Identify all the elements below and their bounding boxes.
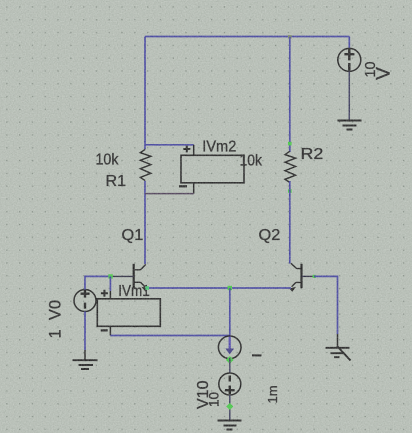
node Q2 base: [313, 275, 316, 278]
ammeter IVm1: [97, 299, 160, 327]
current source Is1: [218, 336, 241, 359]
node top junction: [288, 35, 292, 39]
transistor Q1: [134, 264, 148, 291]
wire Q1 base black part: [111, 275, 134, 277]
wire IVm2 minus stub: [193, 183, 195, 194]
wire tail down to current source: [229, 288, 231, 336]
node R2 bottom: [288, 189, 292, 193]
plus sign IVm2: [183, 146, 190, 153]
wire V0 top to base rail: [85, 276, 111, 289]
voltage source V0: [74, 290, 96, 312]
transistor Q2: [290, 263, 301, 291]
wire V0 bottom to ground: [84, 312, 86, 351]
minus sign IVm1: [101, 329, 108, 331]
minus sign IVm2: [179, 185, 187, 187]
wire IVm2 minus to R1 bottom: [145, 193, 194, 195]
wire IVm2 plus stub: [193, 145, 195, 156]
ground V0: [73, 360, 98, 369]
voltage source VS1 10V: [338, 48, 361, 71]
node above ground: [226, 403, 233, 410]
ground V10: [218, 421, 242, 430]
node V0/IVm1/base junction: [108, 274, 112, 278]
wire VS1 top: [348, 37, 350, 49]
wire R1 bottom vertical: [144, 181, 146, 264]
node Q1 emitter: [145, 286, 149, 290]
wire left vertical to R1: [144, 37, 146, 150]
wire Q2 ground stub: [337, 334, 339, 348]
wire between Is1 and V10: [229, 358, 231, 373]
node below Is1: [226, 356, 234, 364]
wire R2 bottom vertical: [289, 181, 291, 264]
ground VS1: [338, 121, 362, 130]
ground Q2 (with slash): [326, 346, 351, 361]
node emitter tail junction: [228, 286, 232, 290]
ammeter IVm2: [181, 155, 244, 183]
wire Q2 base black part: [302, 275, 314, 277]
wire emitter rail: [147, 287, 291, 289]
minus label near Is1: [252, 354, 262, 356]
wire V10 to ground: [229, 395, 231, 420]
wire V0 ground stub: [84, 350, 86, 360]
plus sign IVm1: [101, 290, 108, 297]
voltage source V10: [219, 373, 241, 395]
wire top rail: [145, 36, 349, 38]
wire VS1 bottom to ground: [348, 71, 350, 119]
wire IVm1 minus to tail: [110, 335, 229, 337]
wire IVm1 minus stub: [109, 326, 111, 335]
wire Q2 base to right and down: [314, 276, 338, 334]
resistor R1: [140, 149, 151, 180]
node R2 top: [288, 142, 292, 146]
resistor R2: [285, 151, 296, 182]
wire R1 top to IVm2 plus: [145, 144, 194, 146]
wire mid vertical to R2: [289, 37, 291, 153]
wire IVm1 plus stub: [109, 276, 111, 291]
